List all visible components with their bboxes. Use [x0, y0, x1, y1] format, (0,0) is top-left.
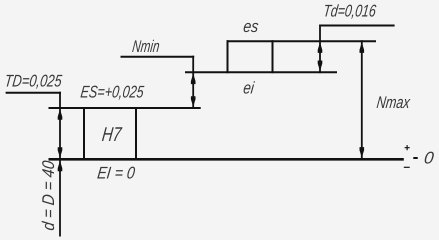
- svg-text:EI = 0: EI = 0: [96, 164, 136, 183]
- svg-text:es: es: [242, 17, 260, 36]
- svg-text:Td=0,016: Td=0,016: [322, 2, 377, 21]
- svg-text:TD=0,025: TD=0,025: [4, 72, 64, 91]
- svg-text:d = D = 40: d = D = 40: [39, 159, 58, 231]
- svg-text:Nmax: Nmax: [376, 93, 412, 112]
- svg-text:Nmin: Nmin: [131, 37, 160, 56]
- svg-text:H7: H7: [101, 124, 123, 146]
- svg-text:ES=+0,025: ES=+0,025: [80, 82, 146, 101]
